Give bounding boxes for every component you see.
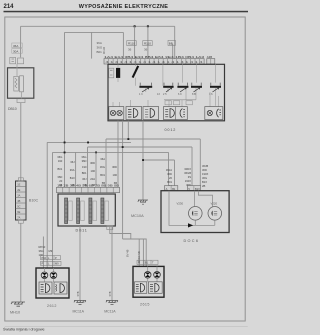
wire A left drop to switch DB10 (20, 26, 22, 57)
svg-text:3 6: 3 6 (209, 93, 213, 96)
boxed label on wire x134.5 (127, 41, 136, 52)
svg-text:P10: P10 (42, 256, 47, 260)
svg-text:MH10: MH10 (10, 311, 20, 315)
svg-text:36J: 36J (70, 160, 75, 164)
svg-text:1 3: 1 3 (139, 93, 143, 96)
node junction 2 on wire A (147, 25, 149, 27)
high beam icon cell 2615 (148, 282, 162, 294)
svg-text:BV 4B: BV 4B (126, 249, 130, 257)
outer frame (5, 17, 245, 321)
low beam icon cell 2615 (135, 282, 147, 294)
label DB10 (8, 107, 17, 111)
node on bus R3 (142, 159, 144, 161)
svg-text:190: 190 (82, 165, 87, 169)
svg-text:2E: 2E (17, 188, 20, 192)
wire code stack at x200 for DOC6 (202, 164, 208, 188)
svg-text:5C: 5C (17, 205, 20, 209)
fuse box double cell beam indicator icons (164, 107, 188, 120)
wire B left drop long to connector DB11 (64, 32, 66, 187)
svg-text:V230: V230 (177, 201, 184, 205)
wire x75.6 down to connector DB11 (75, 152, 77, 187)
label stack on wire A near DB10 (12, 43, 22, 53)
label DB11 (76, 229, 88, 233)
svg-text:B01: B01 (97, 50, 103, 54)
svg-text:36G: 36G (57, 155, 62, 159)
svg-text:B10C: B10C (29, 199, 39, 203)
svg-text:3S: 3S (188, 175, 191, 179)
rotated wire codes left of 2615 (126, 249, 141, 262)
svg-text:190X: 190X (185, 179, 191, 183)
wire code stack at x174.5 for DOC6 (166, 168, 173, 188)
svg-text:190: 190 (58, 159, 63, 163)
fuse box 0012 top connector cell strip (104, 59, 215, 64)
svg-text:6E: 6E (17, 210, 20, 214)
svg-text:36: 36 (144, 48, 148, 52)
svg-text:30D: 30D (202, 168, 207, 172)
svg-text:P: P (42, 262, 44, 266)
svg-text:7A: 7A (17, 216, 20, 220)
svg-text:B1: B1 (145, 261, 149, 265)
ground MH10 (11, 302, 25, 306)
bulb lamp left in DOC6 (189, 207, 203, 221)
svg-text:36GB: 36GB (184, 171, 191, 175)
fuse box cell high beam icon (143, 107, 159, 120)
bulb left 2612 (41, 272, 48, 279)
svg-text:36A: 36A (13, 44, 18, 48)
svg-text:36G: 36G (100, 165, 105, 169)
connector cell below DB10 (17, 99, 25, 103)
wire from DB11 down to ground MC11A left (79, 226, 81, 300)
wire from fuse box pin x143 down to ground (142, 121, 144, 200)
wire code stack at x106 (100, 157, 106, 185)
bus L1a horizontal (47, 141, 131, 143)
svg-text:R136: R136 (102, 46, 106, 54)
node at x64.5 on bus L1b (64, 152, 66, 154)
rotated wire code above right MC11A (108, 291, 112, 296)
wire A top horizontal bus (21, 25, 175, 27)
wire code stack above headlight 2612 (39, 245, 53, 257)
pin digits inside fuse box cells (106, 61, 205, 64)
DOC6 top connector cells pair 2 (187, 186, 200, 191)
svg-text:MC10A: MC10A (131, 214, 144, 218)
svg-text:MC11A: MC11A (104, 309, 116, 313)
label V230 (177, 201, 184, 205)
rotated wire code above left MC11A (76, 291, 80, 296)
bulb left 2615 (144, 272, 151, 279)
wire code stack at x75.6 (70, 160, 75, 187)
internal wires DOC6 (169, 191, 215, 226)
svg-text:36: 36 (128, 48, 132, 52)
wires into bulbs 2612 (45, 268, 54, 282)
svg-text:RP10: RP10 (39, 245, 46, 249)
svg-text:36D: 36D (167, 172, 172, 176)
headlight unit 2612 (36, 268, 69, 298)
svg-text:BB: BB (169, 41, 173, 45)
wire code stack at x192 for DOC6 (184, 167, 191, 187)
connector bar 1 inside DB11 (65, 198, 73, 224)
svg-text:M: M (138, 261, 140, 265)
svg-text:1E: 1E (17, 183, 20, 187)
boxed label on wire x147.8 (143, 41, 152, 52)
label stack on wire x91.6 (97, 41, 103, 54)
svg-text:WYPOSAŻENIE ELEKTRYCZNE: WYPOSAŻENIE ELEKTRYCZNE (79, 3, 169, 10)
node at x64.5 on bus L1a (64, 142, 66, 144)
node on bus R2 (122, 146, 124, 148)
svg-text:B01: B01 (167, 180, 172, 184)
wire from DB10 down to connector B10C (20, 103, 22, 181)
wire drop x174.7 to fuse box (173, 26, 175, 58)
bus L1b horizontal (53, 152, 169, 185)
svg-text:4B: 4B (17, 199, 20, 203)
wire from fuse box pin x128.3 down (127, 121, 129, 138)
svg-text:2 5: 2 5 (163, 93, 167, 96)
svg-text:36A: 36A (70, 168, 75, 172)
header title WYPOSAZENIE ELEKTRYCZNE (79, 3, 169, 10)
svg-text:20: 20 (59, 179, 62, 183)
switch box DB10 (8, 68, 34, 98)
pin number labels under contacts (139, 93, 213, 96)
wire from fuse box pin x122.6 down (122, 121, 124, 239)
svg-text:36A: 36A (100, 157, 105, 161)
zigzag wire from DB11 to headlight 2615 (110, 226, 146, 266)
headlight unit 2615 (133, 266, 164, 297)
fuse box cell low beam icon (126, 107, 142, 120)
node at x88 on bus L1a (87, 142, 89, 144)
fuse F2 diagonal (133, 66, 139, 78)
node junction on wire A (134, 25, 136, 27)
wire drop x123.4 to fuse box (122, 32, 124, 58)
svg-text:36G: 36G (97, 45, 103, 49)
svg-text:4 1 4 1 4 1 4 1 4 1 4 1 4 1 4: 4 1 4 1 4 1 4 1 4 1 4 1 4 1 4 1 4 1 4 1 … (106, 61, 205, 64)
boxed label row above 2615 (137, 260, 158, 264)
wires into bulbs 2615 (148, 266, 157, 281)
svg-text:M9: M9 (55, 262, 59, 266)
svg-text:36G: 36G (202, 176, 207, 180)
wire x96 down to connector DB11 (95, 152, 97, 187)
svg-text:36D: 36D (112, 165, 117, 169)
wire from B10C down to ground MH10 (20, 223, 22, 301)
label B10C (29, 199, 39, 203)
wire drop x134.5 to fuse box (134, 26, 136, 58)
ground symbol MC10A under fuse box (138, 200, 148, 204)
lamp unit box DOC6 (161, 191, 229, 233)
rotated label R36 left of fuse box (102, 46, 106, 54)
svg-text:DB10: DB10 (8, 107, 17, 111)
svg-text:20: 20 (169, 176, 172, 180)
bus R2 to DOC6 (88, 147, 193, 186)
svg-text:B1X: B1X (202, 180, 207, 184)
svg-text:36J: 36J (82, 177, 87, 181)
svg-text:30A: 30A (13, 49, 18, 53)
header rule (4, 11, 249, 13)
internal stubs to bottom cells (113, 92, 219, 107)
ground MC11A left (74, 301, 86, 305)
svg-text:30DX: 30DX (184, 167, 191, 171)
connector strip above box DB11 (57, 184, 120, 193)
internal bus with pin labels (164, 100, 196, 105)
wire x52.5 from bus L1b to headlight 2612 (52, 152, 54, 268)
low beam icon cell 2612 (39, 282, 52, 294)
label MC11A right (104, 309, 116, 313)
label 2615 (140, 303, 150, 307)
svg-text:190: 190 (113, 173, 118, 177)
wire from DB11 down to ground MC11A right (111, 226, 113, 300)
wire drop x147.8 to fuse box (147, 26, 149, 58)
junction box DB11 (58, 194, 115, 226)
caption Swiatla mijania i drogowe (3, 327, 45, 332)
svg-text:B01: B01 (82, 171, 87, 175)
svg-text:2612: 2612 (47, 304, 57, 308)
ground MC11A right (106, 301, 118, 305)
relay contact bar 1 (139, 83, 152, 88)
svg-text:0012: 0012 (165, 128, 177, 132)
connector bar 4 inside DB11 (101, 198, 109, 224)
svg-text:B10: B10 (70, 176, 75, 180)
svg-text:36G: 36G (81, 155, 86, 159)
svg-text:P: P (55, 256, 57, 260)
svg-text:1B 2B 3B 4B 5B 6B 7B 8B 9B 0B: 1B 2B 3B 4B 5B 6B 7B 8B 9B 0B (57, 184, 119, 188)
wire code stack at x96 (90, 161, 95, 187)
zigzag wire 2 from x122.6 to headlight 2615 (123, 239, 144, 266)
label DOC6 (184, 239, 200, 243)
wire code stack at x63.3 (57, 155, 63, 187)
svg-text:2615: 2615 (140, 303, 150, 307)
internal wires of fuse box (118, 64, 216, 106)
junction arrow inside DOC6 (188, 223, 193, 227)
boxed label on wire x174.7 (168, 40, 175, 45)
wire drop x91.6 to fuse box (91, 32, 93, 58)
svg-text:36D: 36D (57, 175, 62, 179)
svg-text:8 B: 8 B (192, 93, 196, 96)
fuse F1 (109, 68, 120, 78)
high beam icon cell 2612 (54, 282, 67, 294)
svg-text:36D: 36D (82, 159, 87, 163)
svg-text:3A: 3A (17, 194, 20, 198)
pin labels above fuse box cells (104, 55, 212, 59)
svg-text:20A: 20A (90, 177, 95, 181)
bus R1 to DOC6 (106, 139, 200, 187)
svg-text:6 9: 6 9 (178, 93, 182, 96)
label 0012 (165, 128, 177, 132)
svg-text:M9: M9 (49, 249, 53, 253)
bulb right 2615 (154, 272, 161, 279)
label MC10A (131, 214, 144, 218)
wire code stack at x87.5 (81, 155, 87, 187)
svg-text:B01: B01 (58, 167, 63, 171)
page background (0, 0, 250, 335)
svg-text:DB11: DB11 (76, 229, 88, 233)
relay contact bar 5 (210, 83, 221, 88)
label MH10 (10, 311, 20, 315)
node on bus R1 (127, 138, 129, 140)
relay actuator arrows (142, 87, 219, 92)
node L1b at x96 (95, 152, 97, 154)
wire x87.5 down to connector DB11 (87, 147, 89, 187)
svg-text:R110: R110 (144, 42, 151, 46)
svg-text:190X: 190X (202, 172, 208, 176)
connector bar 3 inside DB11 (89, 198, 97, 224)
svg-text:STB: STB (108, 291, 112, 296)
bulb right 2612 (50, 272, 57, 279)
fuse box bottom cell with bulb symbols (109, 107, 124, 120)
svg-text:DOC6: DOC6 (184, 239, 200, 243)
svg-text:B01: B01 (100, 173, 105, 177)
relay contact bar 2 (163, 83, 173, 88)
svg-text:36JB: 36JB (202, 164, 208, 168)
faint page bottom line (5, 325, 248, 328)
svg-text:36A: 36A (97, 41, 102, 45)
svg-text:2B: 2B (202, 184, 205, 188)
svg-text:36G: 36G (39, 249, 44, 253)
connector stub below DB11 (107, 226, 113, 230)
svg-text:R110: R110 (128, 42, 135, 46)
label MC11A left (73, 309, 85, 313)
svg-text:STB: STB (76, 291, 80, 296)
label V220 (211, 201, 218, 205)
boxed label row 2 above 2612 (41, 261, 62, 265)
svg-text:36D: 36D (90, 161, 95, 165)
svg-text:Światła mijania i drogowe: Światła mijania i drogowe (3, 327, 45, 332)
bus R3 to DOC6 (143, 160, 175, 186)
wire B horizontal (65, 31, 124, 33)
wire x43.4 to headlight 2612 (42, 237, 44, 269)
relay contact bar 4 (191, 83, 202, 88)
switch contact inside DB10 (14, 64, 24, 98)
svg-text:36JA: 36JA (166, 168, 172, 172)
wire code stack at x118 (112, 165, 117, 185)
DOC6 top connector cells pair 1 (165, 186, 178, 191)
fuse box right cell lamp icons (205, 107, 223, 120)
fuse box 0012 body (108, 64, 225, 121)
svg-text:1A4 E14 3B4 E34 8B4 E64 3E4 1B: 1A4 E14 3B4 E34 8B4 E64 3E4 1B4 0B4 1A3 (104, 55, 205, 59)
connector B10C multi-pin (16, 178, 27, 223)
connector bar 2 inside DB11 (77, 198, 85, 224)
svg-text:A3B: A3B (207, 55, 212, 59)
label 2612 (47, 304, 57, 308)
svg-text:V220: V220 (211, 201, 218, 205)
connector cell pair above switch DB10 (10, 57, 24, 63)
svg-text:214: 214 (4, 4, 15, 10)
svg-text:190: 190 (91, 169, 96, 173)
svg-text:MC11A: MC11A (73, 309, 85, 313)
bulb lamp right in DOC6 (208, 207, 222, 221)
relay contact bar 3 (177, 83, 188, 88)
wire from fuse box pin x118 down to DB11 (117, 121, 119, 188)
page number 214 (4, 4, 15, 10)
wire left drop from bus L1a to headlight 2612 (46, 142, 48, 268)
boxed label row 1 above 2612 (41, 256, 61, 260)
